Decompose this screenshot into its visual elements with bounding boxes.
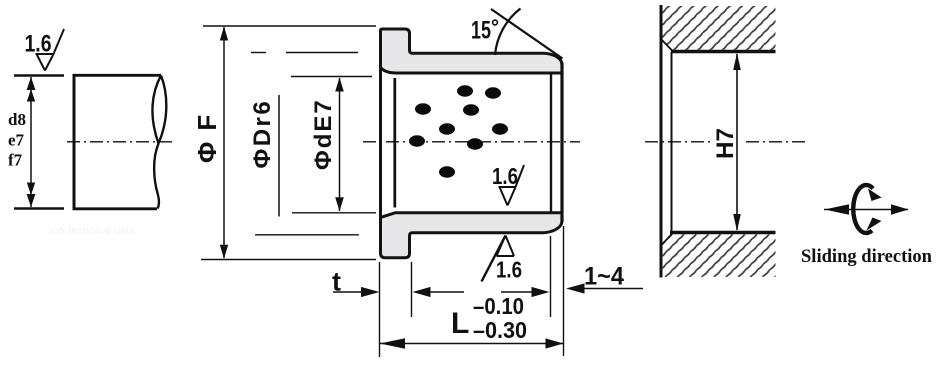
L arrow right [546,338,564,348]
housing bottom bore line [670,231,776,235]
svg-text:1~4: 1~4 [584,263,624,291]
housing bore chamfer edge line [671,52,673,232]
housing left face [660,5,663,278]
PhiF top extension line [203,25,376,27]
flange left face line [379,63,382,220]
centerline (shaft) [67,141,174,143]
degree circle [493,20,498,25]
roughness symbol below body [482,236,515,282]
arrow down double (shaft dim bottom) [27,194,36,207]
PhiF arrow down [220,245,228,259]
PhidE7 arrow up [335,78,344,92]
svg-text:–0.30: –0.30 [473,317,527,343]
t dimension line [333,291,362,293]
H7 dimension line [736,54,738,230]
PhidE7 top extension [291,76,372,78]
centerline (middle) [363,141,580,143]
bore entrance chamfer edge [393,78,396,208]
svg-text:L: L [451,307,469,340]
sliding arrow right [891,204,909,215]
PhiF bottom extension line [201,259,376,261]
svg-text:H7: H7 [712,128,739,159]
housing top bore line [671,50,776,54]
centerline (housing left) [645,141,712,143]
shaft bottom extension line [14,207,64,210]
svg-text:ΦDr6: ΦDr6 [249,99,276,169]
t outside arrow (right side) [413,287,431,297]
shaft break line [152,76,166,209]
svg-text:ΦF: ΦF [192,104,222,163]
PhiDr6 top extension [251,52,266,54]
housing top chamfer line [662,40,674,52]
arrow up double (shaft dim top) [27,77,36,90]
H7 arrow down [733,214,741,231]
svg-text:ΦdE7: ΦdE7 [310,98,337,170]
t arrow right [361,287,380,297]
roughness symbol in bore [499,165,525,206]
extension line end face [563,226,565,356]
centerline (housing right) [746,141,806,143]
PhiF dimension line [223,27,225,258]
bushing bottom arm (lower wall + flange) [381,213,563,258]
svg-text:Sliding direction: Sliding direction [801,246,932,267]
chamfer length outside arrow (left side) [501,291,533,293]
H7 arrow up [733,53,741,70]
extension line flange right [411,262,413,317]
PhiF arrow up [220,27,228,41]
sliding arrow left [825,204,850,215]
housing top hatch block [662,6,776,50]
L arrow left [380,338,405,349]
L dimension line [380,343,563,345]
15 degree chamfer line [491,9,563,59]
PhidE7 dimension line [339,78,341,211]
PhiDr6 dimension line [278,95,280,217]
rotation arrow bottom [867,218,882,231]
PhiDr6 bottom extension [255,234,359,236]
shaft diameter dimension line [30,77,32,207]
svg-text:e7: e7 [8,131,25,150]
rotation arrow top [868,189,882,202]
1~4 arrow [566,283,585,293]
svg-text:1.6: 1.6 [496,257,522,283]
extension line chamfer start [550,236,552,317]
svg-text:mfr technical data: mfr technical data [50,226,135,237]
svg-text:d8: d8 [8,110,26,129]
housing bottom hatch block [662,234,776,277]
15 degree arc [495,9,521,56]
PhidE7 arrow down [335,197,344,211]
bushing top arm (flange + upper wall) [381,29,563,73]
svg-text:–0.10: –0.10 [473,293,524,319]
housing bottom chamfer line [662,233,674,245]
svg-text:f7: f7 [8,151,23,170]
svg-text:1.6: 1.6 [25,31,52,58]
rotation arc [853,185,873,233]
svg-text:15: 15 [471,17,491,45]
end face line [560,63,563,222]
shaft top extension line [14,74,64,77]
extension line flange left [379,262,381,357]
graphite plug dots [409,85,508,177]
sliding axis line [824,209,908,211]
shaft body [73,74,162,210]
PhidE7 bottom extension [292,212,376,214]
end chamfer edge [550,74,552,212]
roughness symbol 1.6 (shaft) [36,29,65,71]
svg-text:1.6: 1.6 [492,163,518,189]
